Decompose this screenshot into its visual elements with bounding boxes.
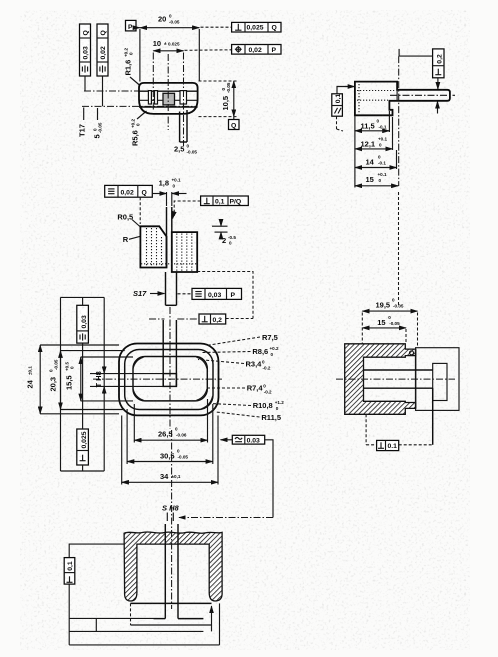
- dim 34: [122, 481, 218, 483]
- tick T17: [83, 108, 85, 121]
- interior dotted lines: [357, 90, 396, 92]
- dim 15,5: [65, 357, 134, 401]
- rim lip circle: [410, 351, 414, 355]
- T H8 ext lines: [90, 373, 163, 375]
- datum frame Q left 2: [97, 24, 108, 76]
- FCF sym 0,02 Q: [105, 185, 153, 224]
- dim 24: [26, 345, 120, 414]
- FCF perp 0,1 rotated: [64, 558, 75, 585]
- phantom rect R1: [416, 348, 459, 411]
- datum box P: [126, 20, 140, 31]
- leader from frame2 to slot line B: [102, 76, 104, 106]
- line B dash-dot into part: [82, 105, 196, 107]
- dotted bottom line: [141, 263, 197, 265]
- FCF perp 0,1 P/Q: [173, 196, 249, 219]
- inner face line: [396, 90, 398, 101]
- contour 2: [125, 350, 213, 410]
- contour 3: [133, 357, 207, 401]
- bottom web of lines: [68, 584, 70, 645]
- bottom dims: [122, 399, 218, 485]
- dim 15: [355, 172, 398, 186]
- dim 2 -0.5 right: [212, 219, 236, 246]
- leader ticks: [166, 513, 168, 522]
- slot centerline left: [152, 53, 154, 112]
- interior dotted verticals: [146, 228, 148, 266]
- part outline (stadium): [139, 83, 198, 114]
- slot 2 center (dark): [163, 93, 175, 105]
- FCF wave 0.03: [179, 435, 273, 517]
- ext lines: [133, 404, 135, 443]
- center dash-dot: [336, 378, 455, 380]
- FCF perp 0,025 rotated: [77, 429, 89, 465]
- connection bottom face to FCF: [197, 272, 253, 319]
- outer contour: [119, 344, 219, 416]
- FCF position 0,02 P: [232, 45, 281, 55]
- FCF perp 0,1 bottom: [366, 414, 433, 450]
- bracket lines connecting FCFs: [61, 296, 105, 298]
- block outline: [355, 82, 450, 116]
- dim 11,5: [355, 111, 390, 188]
- dim 19,5: [362, 298, 417, 349]
- FCF perpendicular 0,025 Q: [232, 22, 281, 32]
- center hole lines: [164, 524, 166, 619]
- dim 30,5: [127, 461, 213, 463]
- leader R5,6: [137, 111, 147, 119]
- datum box Q below 10,5: [229, 117, 240, 130]
- centerline row: [140, 99, 198, 101]
- FCF parallel 0,1 rotated left: [332, 87, 355, 132]
- chord line top: [139, 90, 198, 92]
- line A dash-dot into part: [84, 90, 197, 92]
- datum frame Q left 1: [80, 24, 91, 76]
- left bracket to FCF: [69, 544, 124, 558]
- dim T H8: [94, 366, 104, 394]
- stem top lines: [166, 207, 168, 237]
- rim line: [131, 602, 212, 604]
- tick 5: [97, 108, 99, 120]
- center rect: [163, 374, 176, 387]
- dim 12,1: [355, 117, 393, 150]
- dashed axis from top view: [398, 192, 400, 305]
- long dashed axis: [398, 56, 400, 186]
- leader from frame1 to slot line A: [84, 76, 86, 91]
- body outline left half: [140, 226, 166, 267]
- dim 10 ±0.025: [153, 39, 231, 51]
- leader R1,6: [130, 77, 140, 86]
- corner transition arcs: [197, 357, 207, 368]
- dim 15: [362, 315, 406, 344]
- dim 1,8: [152, 178, 187, 207]
- FCF sym 0,03 rotated: [77, 305, 89, 343]
- dim 20: [140, 14, 231, 82]
- center slot verticals: [162, 320, 164, 386]
- centerline horizontal: [93, 378, 222, 380]
- dim 10,5 right: [199, 81, 237, 117]
- body outline right half: [172, 232, 197, 272]
- centerline vertical: [169, 307, 171, 429]
- chord line bottom: [139, 106, 198, 108]
- FCF perp 0,2: [149, 314, 253, 324]
- rim face line: [415, 349, 417, 408]
- slot centerline right: [183, 53, 185, 147]
- hole bottom ticks: [154, 618, 166, 620]
- dim 14: [355, 150, 397, 169]
- inner lines: [364, 369, 433, 371]
- bottom stem: [166, 272, 177, 305]
- slot 3: [180, 91, 187, 104]
- FCF perpendicular 0,2 rotated top-right: [399, 49, 444, 114]
- slot 1: [148, 91, 151, 104]
- hatched C body: [345, 344, 416, 415]
- R labels right side: [198, 333, 284, 422]
- phantom rect R2: [433, 363, 447, 400]
- centerline: [171, 430, 173, 609]
- dim 26,5: [134, 439, 207, 441]
- FCF sym 0,03 P: [178, 288, 242, 299]
- cup section hatched: [124, 532, 222, 601]
- dim 20,3: [49, 297, 125, 471]
- bar centerline: [390, 94, 455, 96]
- stem below: [179, 112, 181, 143]
- centerline vertical part: [167, 54, 169, 130]
